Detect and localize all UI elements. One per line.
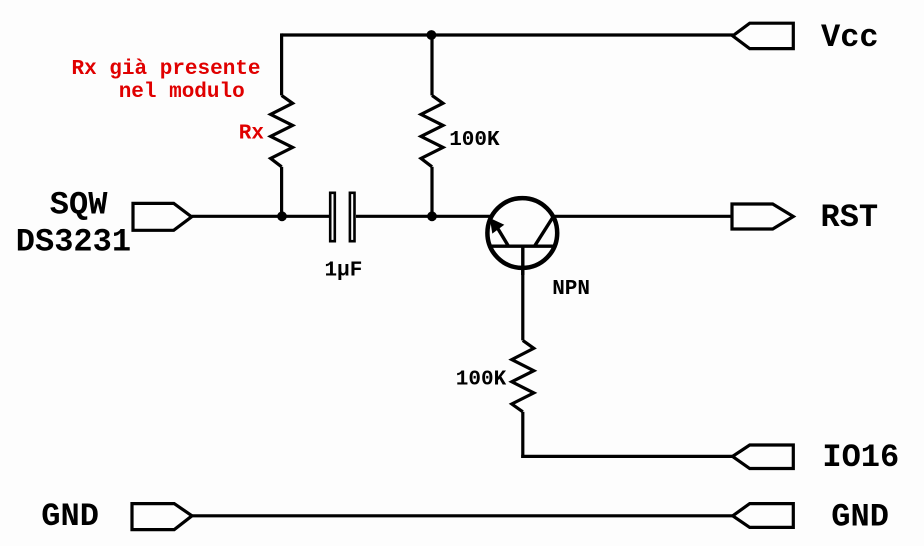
transistor collector diagonal bbox=[535, 216, 555, 247]
transistor Q1 circle bbox=[487, 198, 557, 268]
svg-text:Rx: Rx bbox=[239, 122, 265, 145]
connector tag GND right bbox=[733, 504, 794, 528]
capacitor C plate left bbox=[330, 193, 335, 241]
transistor emitter arrowhead bbox=[490, 218, 505, 234]
svg-text:DS3231: DS3231 bbox=[16, 224, 131, 261]
svg-text:GND: GND bbox=[831, 498, 889, 535]
wire 100K branch upper bbox=[430, 35, 433, 95]
resistor 100K bottom bbox=[512, 340, 534, 411]
junction node left bbox=[277, 211, 287, 221]
junction dot top bbox=[427, 30, 437, 40]
wire 100K branch lower bbox=[430, 167, 433, 217]
wire corner to IO16 bbox=[521, 455, 732, 458]
transistor emitter diagonal bbox=[496, 226, 509, 247]
svg-text:Rx già presente: Rx già presente bbox=[72, 58, 261, 81]
connector tag SQW bbox=[133, 203, 192, 230]
svg-text:RST: RST bbox=[821, 199, 879, 236]
connector tag IO16 bbox=[733, 445, 794, 469]
svg-text:NPN: NPN bbox=[552, 278, 590, 301]
svg-text:100K: 100K bbox=[456, 368, 507, 391]
capacitor C plate right bbox=[350, 193, 355, 241]
wire left branch upper bbox=[280, 33, 283, 95]
connector tag RST bbox=[732, 204, 793, 229]
wire top left segment bbox=[282, 33, 432, 36]
svg-text:1µF: 1µF bbox=[325, 260, 363, 283]
wire left branch lower bbox=[280, 167, 283, 217]
svg-text:100K: 100K bbox=[449, 129, 500, 152]
wire resistor to corner bbox=[521, 412, 524, 458]
transistor base lead inside bbox=[521, 246, 524, 275]
wire collector to RST bbox=[553, 215, 732, 218]
svg-text:IO16: IO16 bbox=[822, 439, 899, 476]
svg-text:SQW: SQW bbox=[50, 186, 108, 223]
wire top right segment to Vcc bbox=[431, 33, 733, 36]
svg-text:Vcc: Vcc bbox=[821, 19, 879, 56]
resistor 100K top bbox=[421, 95, 443, 166]
svg-text:nel modulo: nel modulo bbox=[119, 81, 245, 104]
wire capacitor to transistor bbox=[356, 215, 491, 218]
connector tag Vcc bbox=[733, 23, 794, 48]
wire GND rail bbox=[192, 514, 733, 517]
wire SQW to capacitor bbox=[192, 215, 329, 218]
transistor base bar bbox=[491, 244, 554, 247]
resistor Rx bbox=[271, 95, 293, 166]
svg-text:GND: GND bbox=[41, 498, 99, 535]
connector tag GND left bbox=[132, 504, 192, 530]
junction dot middle bbox=[427, 211, 437, 221]
wire base to resistor bbox=[521, 270, 524, 340]
